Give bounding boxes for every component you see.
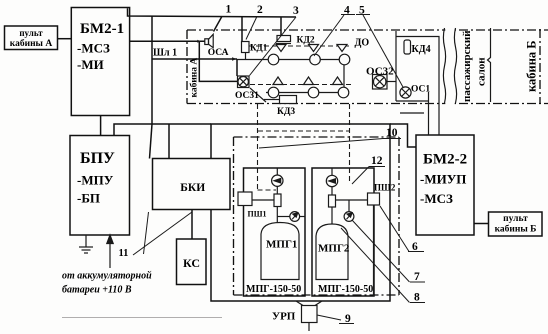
svg-text:-БП: -БП (77, 191, 100, 206)
svg-text:салон: салон (476, 57, 488, 86)
svg-text:3: 3 (293, 5, 299, 17)
svg-text:КД2: КД2 (297, 36, 315, 46)
svg-text:4: 4 (344, 5, 350, 17)
svg-text:БПУ: БПУ (80, 150, 115, 167)
svg-text:-МПУ: -МПУ (77, 173, 114, 188)
svg-text:МПГ-150-50: МПГ-150-50 (318, 284, 373, 295)
svg-text:-МСЗ: -МСЗ (77, 41, 110, 56)
svg-text:8: 8 (414, 292, 420, 304)
svg-text:БМ2-1: БМ2-1 (80, 21, 124, 37)
svg-text:-МИ: -МИ (77, 57, 104, 72)
svg-text:пульт: пульт (19, 28, 43, 38)
svg-text:УРП: УРП (272, 311, 296, 323)
svg-text:БКИ: БКИ (180, 182, 205, 194)
svg-text:КД1: КД1 (250, 43, 268, 53)
svg-text:5: 5 (359, 5, 365, 17)
svg-text:11: 11 (119, 248, 129, 259)
svg-text:пассажирский: пассажирский (461, 30, 473, 102)
svg-text:12: 12 (371, 155, 383, 167)
svg-text:-МИУП: -МИУП (420, 172, 466, 187)
svg-text:2: 2 (257, 4, 263, 16)
svg-text:ОС1: ОС1 (411, 85, 430, 95)
svg-text:Шл 1: Шл 1 (153, 48, 177, 59)
svg-text:6: 6 (412, 241, 418, 253)
svg-text:ОСА: ОСА (208, 48, 229, 58)
svg-text:кабина Б: кабина Б (525, 40, 539, 92)
svg-text:КС: КС (183, 256, 200, 270)
svg-text:ОС31: ОС31 (235, 91, 259, 101)
svg-text:кабины А: кабины А (10, 38, 53, 49)
svg-text:ОС32: ОС32 (366, 66, 394, 78)
svg-text:от аккумуляторной: от аккумуляторной (62, 271, 152, 282)
svg-text:МПГ1: МПГ1 (266, 239, 297, 251)
svg-text:кабина А: кабина А (189, 58, 200, 98)
svg-text:кабины Б: кабины Б (495, 224, 537, 235)
svg-text:пульт: пульт (503, 214, 528, 224)
svg-text:7: 7 (414, 271, 420, 283)
svg-text:-МСЗ: -МСЗ (420, 191, 453, 206)
svg-text:КД4: КД4 (412, 44, 431, 55)
svg-text:МПГ-150-50: МПГ-150-50 (246, 284, 301, 295)
svg-text:МПГ2: МПГ2 (318, 243, 350, 255)
svg-text:10: 10 (386, 127, 398, 139)
svg-text:9: 9 (345, 313, 351, 325)
svg-text:БМ2-2: БМ2-2 (423, 152, 467, 168)
svg-text:1: 1 (226, 4, 232, 16)
svg-text:ПШ2: ПШ2 (374, 183, 396, 193)
svg-text:КД3: КД3 (277, 107, 295, 117)
svg-text:ПШ1: ПШ1 (248, 210, 267, 219)
svg-text:ДО: ДО (355, 38, 370, 49)
svg-text:батареи +110 В: батареи +110 В (62, 285, 132, 296)
